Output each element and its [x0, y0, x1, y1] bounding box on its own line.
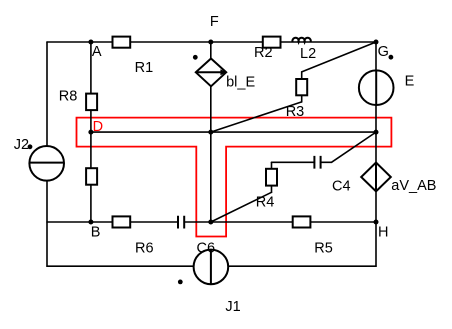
wire R4 top stub — [271, 162, 273, 169]
wire R4 bottom stub — [271, 186, 273, 193]
resistor R3 — [296, 79, 307, 95]
dot near G — [389, 55, 394, 60]
svg-text:bl_E: bl_E — [226, 74, 255, 90]
svg-text:A: A — [92, 44, 102, 60]
node F — [208, 40, 213, 45]
resistor R4 — [266, 169, 277, 186]
source J2 circle — [29, 146, 64, 181]
svg-text:L2: L2 — [300, 46, 316, 62]
svg-text:E: E — [405, 74, 415, 90]
wire F vertical upper — [210, 42, 212, 59]
wire bottom left of J1 — [47, 265, 194, 267]
source aV_AB diamond — [361, 163, 391, 192]
highlighted region (red T outline) — [77, 118, 392, 237]
wire C4 branch right — [321, 161, 332, 163]
svg-text:H: H — [378, 224, 388, 240]
source bl_E diamond — [196, 59, 226, 87]
source J2 chord — [29, 162, 64, 164]
resistor R2 — [263, 37, 281, 48]
svg-text:C4: C4 — [332, 179, 351, 195]
node D — [88, 130, 93, 135]
node mid B row — [208, 220, 213, 225]
resistor R8 — [86, 94, 97, 111]
wire diagonal R3 to node D row — [211, 102, 302, 132]
wire left vertical upper — [46, 42, 48, 146]
wire F vertical lower — [210, 86, 212, 222]
dot near bl_E — [193, 55, 198, 60]
svg-text:R6: R6 — [135, 240, 154, 256]
wire bottom right of J1 — [228, 265, 376, 267]
node right D row — [374, 130, 379, 135]
source E circle — [359, 70, 394, 105]
node A — [88, 40, 93, 45]
dot near J2 — [28, 144, 33, 149]
capacitor C4 plates — [314, 156, 320, 169]
source aV_AB diameter — [375, 163, 377, 192]
svg-text:G: G — [378, 44, 389, 60]
source J1 chord — [210, 250, 212, 285]
source J1 circle — [194, 250, 229, 285]
resistor R6 — [113, 216, 131, 227]
svg-text:D: D — [93, 119, 103, 135]
svg-text:R5: R5 — [314, 240, 333, 256]
svg-text:R2: R2 — [254, 45, 273, 61]
resistor R5 — [293, 216, 311, 227]
svg-text:aV_AB: aV_AB — [391, 178, 436, 194]
wire diagonal C4 to node — [332, 132, 377, 162]
wire R3 bottom stub — [301, 95, 303, 102]
wire R3 top stub — [301, 72, 303, 79]
source bl_E arrowhead — [220, 69, 226, 75]
wire B row left — [47, 221, 178, 223]
source bl_E chord — [196, 71, 226, 73]
wire G-H vertical — [375, 42, 377, 266]
wire B row right — [184, 221, 376, 223]
wire left vertical lower — [46, 180, 48, 266]
wire D row — [91, 131, 376, 133]
wire diagonal R4 to node — [211, 192, 272, 222]
wire top A-F-G — [47, 41, 376, 43]
wire diagonal R3 to G — [302, 42, 376, 72]
svg-text:R8: R8 — [59, 89, 78, 105]
node B — [88, 220, 93, 225]
svg-text:R3: R3 — [286, 104, 305, 120]
resistor R1 — [113, 37, 131, 48]
svg-text:J2: J2 — [14, 137, 29, 153]
source E diameter — [375, 70, 377, 105]
svg-text:R1: R1 — [135, 60, 154, 76]
svg-text:B: B — [91, 224, 101, 240]
svg-text:F: F — [210, 14, 219, 30]
node mid D row — [208, 130, 213, 135]
svg-text:J1: J1 — [225, 299, 240, 315]
dot near J1 — [178, 280, 183, 285]
svg-text:R4: R4 — [256, 194, 275, 210]
node G — [374, 40, 379, 45]
wire A to B vertical — [90, 42, 92, 222]
node H — [374, 220, 379, 225]
capacitor C6 plates — [178, 216, 184, 229]
svg-text:C6: C6 — [197, 240, 216, 256]
wire C4 branch left — [272, 161, 315, 163]
resistor (unlabeled) below D — [86, 168, 97, 185]
inductor L2 — [292, 38, 310, 42]
